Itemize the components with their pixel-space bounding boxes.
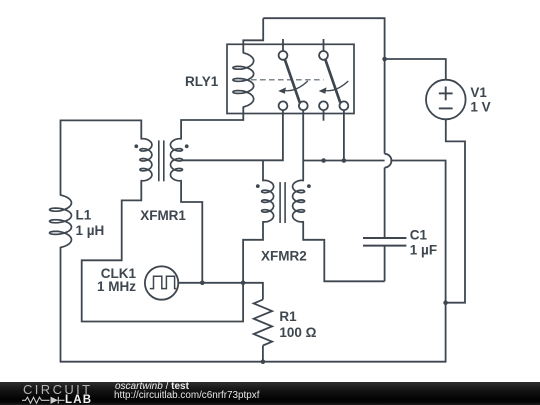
svg-text:L1: L1 [76,208,92,223]
svg-text:RLY1: RLY1 [185,74,219,89]
svg-text:1 µH: 1 µH [76,223,105,238]
svg-text:1 V: 1 V [470,100,490,115]
svg-text:100 Ω: 100 Ω [279,325,316,340]
svg-text:1 MHz: 1 MHz [97,279,136,294]
svg-text:V1: V1 [470,85,487,100]
svg-text:1 µF: 1 µF [410,243,437,258]
svg-text:C1: C1 [410,228,428,243]
svg-text:XFMR1: XFMR1 [140,208,186,223]
svg-text:R1: R1 [279,309,297,324]
svg-text:XFMR2: XFMR2 [261,249,307,264]
